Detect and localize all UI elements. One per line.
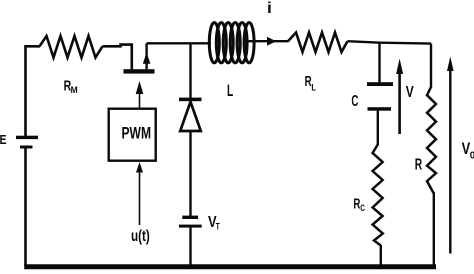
resistor R_L xyxy=(288,33,348,53)
battery V_T bottom (long) plate xyxy=(179,225,202,228)
svg-text:T: T xyxy=(216,222,220,232)
svg-text:PWM: PWM xyxy=(122,124,152,143)
wire top middle (switch to inductor) xyxy=(147,42,211,44)
resistor R_C xyxy=(373,145,383,246)
wire bottom bus xyxy=(24,264,436,269)
svg-text:0: 0 xyxy=(470,151,474,162)
wire diode branch down xyxy=(189,43,191,98)
svg-text:R: R xyxy=(415,156,423,173)
battery V_T top (short) plate xyxy=(182,216,198,219)
diode D1 cathode bar xyxy=(179,98,202,102)
svg-text:u(t): u(t) xyxy=(131,228,150,245)
arrow V0 (output voltage) xyxy=(449,70,451,254)
transistor Q1 gate arrowhead (from PWM) xyxy=(136,81,144,94)
svg-text:M: M xyxy=(71,85,78,95)
transistor Q1 source arrowhead xyxy=(143,53,151,64)
svg-text:i: i xyxy=(267,0,272,17)
wire R_M to switch drain xyxy=(103,45,132,70)
wire top-right corner down to R xyxy=(430,44,432,89)
resistor R xyxy=(427,87,436,193)
svg-text:E: E xyxy=(0,132,7,147)
resistor R_M xyxy=(40,36,103,58)
svg-text:L: L xyxy=(311,83,316,93)
diode D1 triangle xyxy=(180,102,201,131)
svg-text:L: L xyxy=(227,81,233,100)
wire R_L to top-right corner xyxy=(348,41,432,43)
svg-text:C: C xyxy=(360,203,365,213)
wire V_T to bottom xyxy=(189,227,191,266)
capacitor C bottom plate xyxy=(368,107,392,111)
inductor L coil xyxy=(209,23,254,63)
svg-text:V: V xyxy=(406,84,414,101)
wire inductor to R_L xyxy=(249,40,289,42)
wire left vertical + top-left corner xyxy=(26,46,41,136)
transistor Q1 source wire up xyxy=(145,43,147,69)
svg-text:C: C xyxy=(351,93,358,110)
capacitor C top plate xyxy=(367,82,393,86)
arrow V (capacitor voltage) xyxy=(398,72,401,134)
wire C to R_C xyxy=(377,111,379,146)
battery E top (long) plate xyxy=(16,136,38,139)
wire R_C to bottom xyxy=(380,245,382,266)
wire R to bottom xyxy=(433,192,435,266)
wire capacitor branch xyxy=(378,44,380,83)
wire diode to V_T xyxy=(189,131,191,216)
battery E bottom (short) plate xyxy=(20,146,33,149)
current arrow i xyxy=(267,37,276,46)
wire E to bottom xyxy=(24,149,27,267)
PWM box U1 xyxy=(109,109,156,161)
u(t) input arrow xyxy=(139,171,141,225)
wire gate to PWM box xyxy=(139,93,141,110)
transistor Q1 (switch) bar xyxy=(124,69,155,73)
